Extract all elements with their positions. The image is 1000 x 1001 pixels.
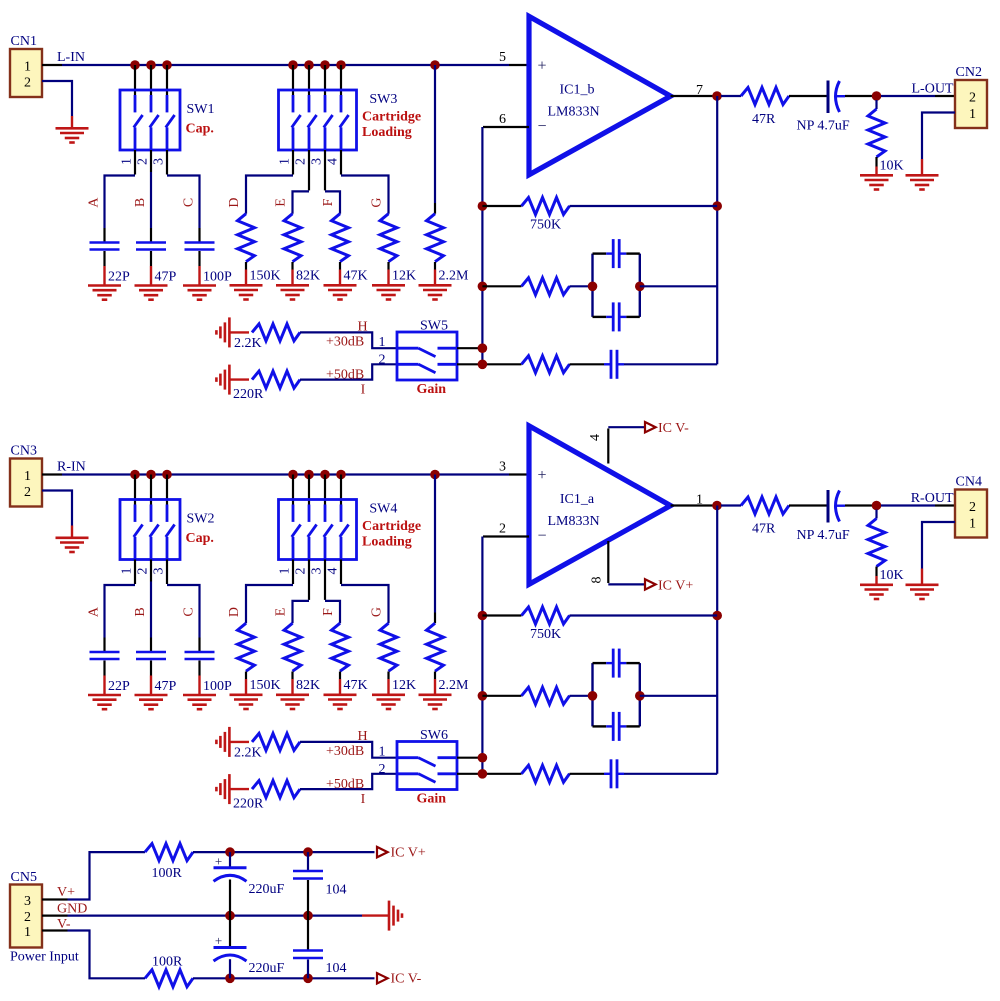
- svg-text:4: 4: [588, 434, 603, 441]
- svg-text:+: +: [537, 467, 546, 484]
- resistor 10K: [868, 510, 904, 584]
- svg-text:F: F: [321, 198, 336, 206]
- wire SW3 pin3 to R 47K: [324, 150, 326, 190]
- svg-text:R-IN: R-IN: [57, 460, 86, 475]
- svg-text:IC1_a: IC1_a: [560, 492, 595, 507]
- resistor 2.2K: [234, 733, 300, 760]
- svg-text:1: 1: [278, 568, 293, 575]
- svg-text:E: E: [274, 198, 289, 207]
- resistor 100R (V+): [145, 844, 193, 881]
- parallel capacitor box: [593, 254, 640, 317]
- wire row2 right: [640, 285, 717, 287]
- wire SW3 pin2 to R 82K: [308, 150, 310, 190]
- svg-text:1: 1: [278, 158, 293, 165]
- wire GND to 220uF lower: [229, 916, 231, 948]
- svg-text:2: 2: [24, 76, 31, 91]
- ground under 100P: [198, 266, 200, 286]
- resistor feedback row3: [522, 765, 570, 782]
- svg-text:47R: 47R: [752, 522, 776, 537]
- wire pin 8 (V+): [607, 541, 609, 583]
- switch SW4 pole 2: [308, 505, 317, 560]
- resistor feedback row2: [522, 687, 570, 704]
- junction GND 104: [303, 911, 313, 921]
- svg-text:10K: 10K: [880, 568, 904, 583]
- wire row2 right: [640, 695, 717, 697]
- svg-text:GND: GND: [57, 902, 87, 917]
- wire bus drop: [166, 475, 168, 505]
- wire SW1 pin2 to cap B: [150, 150, 152, 172]
- wire pin 4 (V-): [607, 429, 609, 464]
- wire 47R to NP cap: [789, 95, 827, 97]
- svg-text:SW6: SW6: [420, 728, 448, 743]
- junction cap box right: [635, 691, 645, 701]
- svg-text:+: +: [537, 58, 546, 75]
- svg-text:C: C: [182, 198, 197, 207]
- svg-text:Cap.: Cap.: [186, 122, 214, 137]
- switch SW2 pole 2: [150, 505, 159, 560]
- resistor feedback row3: [522, 356, 570, 373]
- wire V+ rail: [193, 851, 375, 853]
- svg-text:Cap.: Cap.: [186, 531, 214, 546]
- junction cap box left: [588, 282, 598, 292]
- wire V+ to 104: [307, 852, 309, 871]
- switch SW3 pole 4: [340, 95, 349, 150]
- svg-text:2: 2: [136, 158, 151, 165]
- wire left feedback rail: [481, 127, 483, 364]
- wire 220uF lower to V-: [229, 959, 231, 978]
- wire bus drop: [340, 475, 342, 505]
- resistor 220R: [233, 781, 300, 812]
- wire gnd stub: [229, 331, 249, 333]
- capacitor parallel bottom: [612, 302, 615, 331]
- junction bus x151: [146, 470, 156, 480]
- label Cartridge Loading: [362, 110, 421, 140]
- svg-text:2: 2: [969, 91, 976, 106]
- ground under 12K: [387, 679, 389, 695]
- svg-text:R-OUT: R-OUT: [911, 491, 954, 506]
- svg-text:1: 1: [969, 107, 976, 122]
- switch SW6 pole 1: [398, 758, 456, 766]
- wire right feedback rail: [716, 506, 718, 774]
- resistor 47R: [741, 88, 789, 128]
- svg-text:750K: 750K: [530, 218, 561, 233]
- svg-text:3: 3: [152, 568, 167, 575]
- capacitor NP 4.7uF: [797, 490, 850, 543]
- wire bus drop: [150, 65, 152, 95]
- resistor 750K: [522, 198, 570, 233]
- wire NP cap to junction: [845, 504, 872, 506]
- junction bus x293: [288, 470, 298, 480]
- junction bus x167: [162, 470, 172, 480]
- junction bus x435: [430, 60, 440, 70]
- svg-text:104: 104: [326, 961, 347, 976]
- resistor 47K (branch F): [321, 198, 368, 283]
- svg-text:SW1: SW1: [187, 102, 215, 117]
- switch SW2 box: [120, 500, 180, 560]
- svg-text:150K: 150K: [250, 678, 281, 693]
- svg-text:IC V-: IC V-: [658, 421, 689, 436]
- svg-text:2: 2: [24, 910, 31, 925]
- wire bus drop: [292, 65, 294, 95]
- wire output to 47R: [721, 95, 741, 97]
- SW3 pin numbers: [278, 158, 341, 165]
- resistor 12K (branch G): [370, 197, 417, 283]
- svg-text:NP 4.7uF: NP 4.7uF: [797, 119, 850, 134]
- svg-text:E: E: [274, 608, 289, 617]
- ground under 82K: [291, 679, 293, 695]
- svg-text:LM833N: LM833N: [547, 514, 599, 529]
- junction bus x135: [130, 470, 140, 480]
- wire bus drop: [324, 475, 326, 505]
- switch SW5 box: [397, 332, 457, 380]
- resistor 2.2M: [427, 203, 470, 284]
- SW2 pin numbers: [120, 568, 167, 575]
- junction right rail row1: [712, 611, 722, 621]
- junction V+ 104: [303, 847, 313, 857]
- op-amp IC1_b: [529, 16, 671, 175]
- svg-text:2.2M: 2.2M: [439, 269, 470, 284]
- junction output: [712, 91, 722, 101]
- wire SW4 pin2 to R 82K: [308, 560, 310, 600]
- svg-text:4: 4: [326, 568, 341, 575]
- wire to CN2: [881, 95, 935, 97]
- svg-text:+: +: [215, 853, 222, 868]
- svg-text:6: 6: [499, 112, 506, 127]
- junction right rail row1: [712, 201, 722, 211]
- svg-text:22P: 22P: [108, 679, 130, 694]
- resistor 750K: [522, 607, 570, 642]
- switch SW5 pole 1: [398, 348, 456, 356]
- wire +50dB to switch: [300, 774, 397, 789]
- svg-text:3: 3: [24, 894, 31, 909]
- svg-text:1: 1: [24, 925, 31, 940]
- switch SW1 pole 1: [134, 95, 143, 150]
- connector CN1: [10, 34, 42, 97]
- wire bus drop: [308, 475, 310, 505]
- svg-text:CN1: CN1: [11, 34, 37, 49]
- wire row2 left: [482, 695, 521, 697]
- bar ground GND rail: [388, 901, 391, 931]
- svg-text:1: 1: [120, 158, 135, 165]
- wire row3 mid: [570, 363, 605, 365]
- port IC V+ (op-amp): [645, 579, 693, 594]
- capacitor 104 (V-): [293, 951, 323, 959]
- svg-text:IC V-: IC V-: [391, 972, 422, 987]
- svg-text:Cartridge: Cartridge: [362, 519, 421, 534]
- svg-text:−: −: [537, 118, 546, 135]
- junction bus x167: [162, 60, 172, 70]
- svg-text:1: 1: [379, 745, 386, 760]
- svg-text:V+: V+: [57, 885, 75, 900]
- svg-text:D: D: [227, 197, 242, 207]
- wire row1 left: [482, 614, 521, 616]
- wire gnd stub: [229, 378, 249, 380]
- svg-text:100R: 100R: [152, 866, 183, 881]
- wire output: [671, 95, 717, 97]
- wire output to 47R: [721, 504, 741, 506]
- bar ground +30dB branch: [228, 317, 231, 347]
- svg-text:CN2: CN2: [956, 65, 982, 80]
- ground under 47P: [150, 266, 152, 286]
- svg-text:2.2K: 2.2K: [234, 336, 262, 351]
- wire V- to 100R: [68, 931, 146, 979]
- wire SW1 pin1 to cap A: [134, 150, 136, 175]
- svg-text:SW5: SW5: [420, 319, 448, 334]
- wire row3 right: [624, 363, 717, 365]
- svg-text:220uF: 220uF: [249, 961, 285, 976]
- port IC V+: [377, 846, 426, 861]
- svg-text:NP 4.7uF: NP 4.7uF: [797, 528, 850, 543]
- switch SW3 box: [279, 90, 357, 150]
- svg-text:5: 5: [499, 50, 506, 65]
- junction left rail row2: [478, 282, 488, 292]
- wire CN4 pin1 to ground: [922, 522, 955, 569]
- resistor 82K (branch E): [274, 608, 321, 693]
- ground at CN1: [71, 116, 73, 128]
- wire GND rail: [68, 914, 363, 916]
- parallel capacitor box: [593, 663, 640, 726]
- capacitor parallel top: [612, 649, 615, 678]
- junction output RC: [872, 501, 882, 511]
- switch SW4 box: [279, 500, 357, 560]
- wire SW4 pin1 to R 150K: [292, 560, 294, 585]
- wire bus drop: [166, 65, 168, 95]
- resistor 2.2M: [427, 613, 470, 694]
- resistor 150K (branch D): [227, 607, 281, 693]
- svg-text:220R: 220R: [233, 387, 264, 402]
- junction bus x309: [304, 470, 314, 480]
- wire row3 left: [482, 363, 521, 365]
- svg-text:2.2M: 2.2M: [439, 678, 470, 693]
- wire +30dB to switch: [300, 332, 397, 348]
- bar ground +50dB branch: [228, 365, 231, 395]
- wire CN1 pin1 stub: [42, 64, 62, 66]
- svg-text:I: I: [361, 792, 366, 807]
- svg-text:8: 8: [590, 577, 605, 584]
- wire CN3 pin2 to ground: [42, 491, 72, 526]
- wire row3 right: [624, 773, 717, 775]
- switch SW2 pole 3: [166, 505, 175, 560]
- svg-text:3: 3: [499, 460, 506, 475]
- wire row1 right: [570, 205, 718, 207]
- SW4 pin numbers: [278, 568, 341, 575]
- wire CN2 pin1 to ground: [922, 113, 955, 160]
- wire 104 lower to V-: [307, 960, 309, 979]
- op-amp IC1_a: [529, 426, 671, 585]
- svg-text:47K: 47K: [344, 269, 368, 284]
- resistor 82K (branch E): [274, 198, 321, 283]
- svg-text:1: 1: [24, 60, 31, 75]
- svg-text:SW2: SW2: [187, 512, 215, 527]
- junction bus x435: [430, 470, 440, 480]
- svg-text:750K: 750K: [530, 627, 561, 642]
- wire SW3 pin1 to R 150K: [292, 150, 294, 175]
- svg-text:D: D: [227, 607, 242, 617]
- port IC V- (op-amp): [645, 421, 689, 436]
- junction V- 104: [303, 974, 313, 984]
- ground under 47K: [339, 679, 341, 695]
- wire CN1 pin2 to ground: [42, 81, 72, 116]
- SW1 pin numbers: [120, 158, 167, 165]
- wire R-IN bus: [62, 473, 509, 475]
- ground at CN4: [921, 569, 923, 585]
- wire row3 left: [482, 773, 521, 775]
- svg-text:1: 1: [24, 469, 31, 484]
- capacitor 47P (branch B): [133, 198, 177, 285]
- port IC V-: [377, 972, 422, 987]
- wire SW3 pin4 to R 12K: [340, 150, 342, 175]
- svg-text:L-IN: L-IN: [57, 50, 85, 65]
- wire bus drop: [150, 475, 152, 505]
- svg-text:B: B: [133, 198, 148, 207]
- resistor 220R: [233, 371, 300, 402]
- wire gnd stub: [229, 741, 249, 743]
- wire V- rail: [193, 977, 375, 979]
- svg-text:220uF: 220uF: [249, 882, 285, 897]
- svg-text:Gain: Gain: [417, 792, 447, 807]
- ground under 100P: [198, 676, 200, 696]
- connector CN5: [10, 870, 42, 948]
- capacitor 22P (branch A): [87, 606, 131, 694]
- svg-text:100R: 100R: [152, 955, 183, 970]
- wire NP cap to junction: [845, 95, 872, 97]
- svg-text:1: 1: [379, 335, 386, 350]
- wire bus to R 2.2M: [434, 475, 436, 613]
- junction bus x325: [320, 60, 330, 70]
- capacitor 22P (branch A): [87, 197, 131, 285]
- wire CN2 pin2 stub: [935, 95, 955, 97]
- wire L-IN bus: [62, 64, 509, 66]
- wire CN5 pin2 stub: [42, 914, 68, 916]
- svg-text:CN5: CN5: [11, 870, 37, 885]
- switch SW6 box: [397, 742, 457, 790]
- svg-text:2: 2: [969, 500, 976, 515]
- junction V+ 220uF: [225, 847, 235, 857]
- wire row2 to cap box: [570, 695, 593, 697]
- svg-text:1: 1: [969, 517, 976, 532]
- junction left rail row2: [478, 691, 488, 701]
- svg-text:L-OUT: L-OUT: [912, 82, 954, 97]
- wire CN5 pin1 stub: [42, 929, 68, 931]
- resistor 10K: [868, 100, 904, 174]
- svg-text:2: 2: [294, 568, 309, 575]
- ground under 47K: [339, 270, 341, 286]
- wire 220uF to GND: [229, 880, 231, 916]
- resistor 150K (branch D): [227, 197, 281, 283]
- wire op-amp +in stub: [509, 64, 529, 66]
- svg-text:G: G: [370, 607, 385, 617]
- svg-text:IC V+: IC V+: [391, 846, 426, 861]
- resistor feedback row2: [522, 278, 570, 295]
- junction SW5 out 2: [478, 360, 488, 370]
- svg-text:150K: 150K: [250, 269, 281, 284]
- svg-text:Cartridge: Cartridge: [362, 110, 421, 125]
- wire bus to R 2.2M: [434, 65, 436, 203]
- svg-text:+30dB: +30dB: [326, 744, 364, 759]
- junction cap box right: [635, 282, 645, 292]
- svg-text:IC V+: IC V+: [658, 579, 693, 594]
- svg-text:12K: 12K: [392, 269, 416, 284]
- wire to CN4: [881, 504, 935, 506]
- wire SW2 pin3 to cap C: [166, 560, 168, 585]
- switch SW3 pole 2: [308, 95, 317, 150]
- svg-text:C: C: [182, 607, 197, 616]
- wire row2 to cap box: [570, 285, 593, 287]
- ground under 47P: [150, 676, 152, 696]
- switch SW4 pole 1: [292, 505, 301, 560]
- wire +30dB to switch: [300, 742, 397, 758]
- wire 104 to GND: [307, 880, 309, 916]
- bar ground +50dB branch: [228, 774, 231, 804]
- LEFT CHANNEL section: [0, 0, 1, 1]
- resistor 47K (branch F): [321, 608, 368, 693]
- ground under 10K: [875, 576, 877, 585]
- junction V- 220uF: [225, 974, 235, 984]
- svg-text:B: B: [133, 607, 148, 616]
- ground under 150K: [245, 270, 247, 286]
- wire SW6 out 2: [457, 773, 482, 775]
- wire -in: [483, 535, 529, 537]
- svg-text:A: A: [87, 606, 102, 617]
- wire GND to 104 lower: [307, 916, 309, 951]
- wire SW1 pin3 to cap C: [166, 150, 168, 175]
- junction SW5 out 1: [478, 343, 488, 353]
- ground under 2.2M: [434, 270, 436, 286]
- bar ground +30dB branch: [228, 727, 231, 757]
- svg-text:LM833N: LM833N: [547, 105, 599, 120]
- wire gnd stub: [229, 788, 249, 790]
- wire CN4 pin2 stub: [935, 504, 955, 506]
- wire bus drop: [308, 65, 310, 95]
- resistor 2.2K: [234, 324, 300, 351]
- connector CN2: [955, 65, 987, 128]
- junction bus x151: [146, 60, 156, 70]
- label Cartridge Loading: [362, 519, 421, 549]
- switch SW3 pole 1: [292, 95, 301, 150]
- wire bus drop: [324, 65, 326, 95]
- junction GND 220uF: [225, 911, 235, 921]
- svg-text:Power Input: Power Input: [10, 950, 79, 965]
- ground under 82K: [291, 270, 293, 286]
- svg-text:CN4: CN4: [956, 475, 982, 490]
- wire 47R to NP cap: [789, 504, 827, 506]
- wire SW2 pin2 to cap B: [150, 560, 152, 582]
- wire +50dB to switch: [300, 364, 397, 379]
- ground under 22P: [103, 266, 105, 286]
- junction bus x309: [304, 60, 314, 70]
- connector CN3: [10, 444, 42, 507]
- wire bus drop: [340, 65, 342, 95]
- wire -in: [483, 126, 529, 128]
- svg-text:12K: 12K: [392, 678, 416, 693]
- svg-text:F: F: [321, 608, 336, 616]
- junction left rail row1: [478, 201, 488, 211]
- junction bus x325: [320, 470, 330, 480]
- junction bus x341: [336, 470, 346, 480]
- svg-text:IC1_b: IC1_b: [560, 83, 595, 98]
- wire SW4 pin3 to R 47K: [324, 560, 326, 600]
- svg-text:+30dB: +30dB: [326, 335, 364, 350]
- svg-text:4: 4: [326, 158, 341, 165]
- svg-text:104: 104: [326, 883, 347, 898]
- switch SW1 pole 3: [166, 95, 175, 150]
- switch SW4 pole 4: [340, 505, 349, 560]
- junction SW6 out 1: [478, 753, 488, 763]
- svg-text:2: 2: [379, 762, 386, 777]
- svg-text:−: −: [537, 528, 546, 545]
- wire SW4 pin4 to R 12K: [340, 560, 342, 585]
- junction bus x293: [288, 60, 298, 70]
